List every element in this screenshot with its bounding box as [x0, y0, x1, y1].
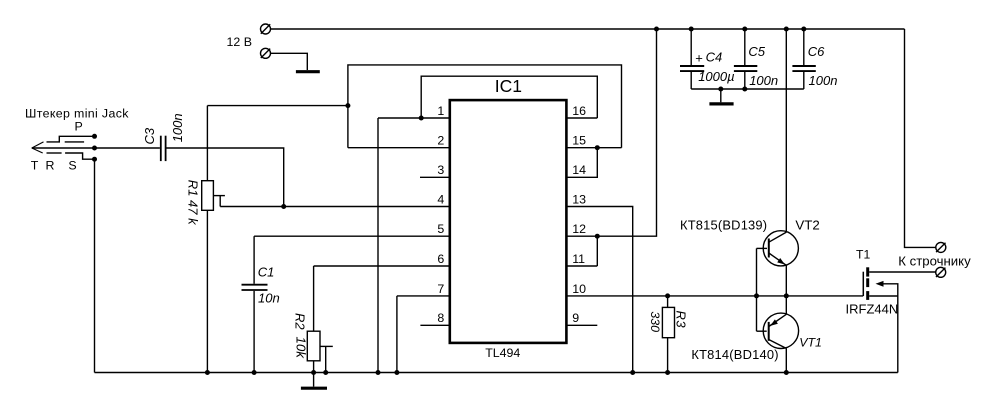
svg-text:+: + [695, 50, 703, 65]
svg-text:11: 11 [572, 252, 585, 266]
svg-text:S: S [68, 158, 76, 172]
svg-text:12 В: 12 В [227, 35, 253, 49]
svg-text:14: 14 [572, 163, 586, 177]
svg-text:R1 47 k: R1 47 k [185, 180, 200, 226]
svg-text:12: 12 [572, 222, 586, 236]
svg-text:10n: 10n [258, 290, 280, 305]
svg-text:7: 7 [437, 282, 444, 296]
svg-text:P: P [75, 120, 83, 134]
svg-text:3: 3 [437, 163, 444, 177]
svg-text:R2: R2 [293, 313, 308, 330]
svg-text:IRFZ44N: IRFZ44N [846, 301, 899, 316]
svg-text:10: 10 [572, 282, 586, 296]
svg-text:VT2: VT2 [795, 218, 819, 233]
svg-text:16: 16 [572, 104, 586, 118]
svg-text:R3: R3 [674, 311, 689, 329]
svg-text:C1: C1 [258, 264, 275, 279]
svg-text:4: 4 [437, 192, 444, 206]
svg-text:1000µ: 1000µ [698, 69, 734, 84]
svg-text:6: 6 [437, 252, 444, 266]
svg-text:VT1: VT1 [799, 335, 822, 349]
svg-text:C5: C5 [748, 44, 765, 59]
svg-text:13: 13 [572, 192, 586, 206]
svg-text:R: R [46, 158, 55, 172]
svg-text:15: 15 [572, 134, 586, 148]
svg-text:100n: 100n [809, 73, 838, 88]
svg-text:5: 5 [437, 222, 444, 236]
svg-text:330: 330 [648, 311, 662, 332]
svg-text:10k: 10k [294, 337, 309, 360]
svg-text:КТ814(BD140): КТ814(BD140) [691, 347, 778, 362]
svg-text:C3: C3 [142, 127, 157, 144]
svg-text:9: 9 [572, 311, 579, 325]
svg-text:2: 2 [437, 134, 444, 148]
svg-text:C6: C6 [808, 44, 825, 59]
svg-text:T: T [31, 158, 39, 172]
svg-text:100n: 100n [170, 113, 185, 142]
svg-text:Штекер mini Jack: Штекер mini Jack [25, 106, 129, 120]
svg-text:К строчнику: К строчнику [898, 254, 971, 269]
svg-text:100n: 100n [749, 73, 778, 88]
svg-text:T1: T1 [856, 248, 870, 262]
svg-text:1: 1 [437, 104, 444, 118]
svg-text:TL494: TL494 [485, 346, 520, 360]
svg-text:IC1: IC1 [495, 76, 522, 96]
svg-text:КТ815(BD139): КТ815(BD139) [680, 217, 767, 232]
svg-text:8: 8 [437, 311, 444, 325]
svg-text:C4: C4 [706, 49, 723, 64]
